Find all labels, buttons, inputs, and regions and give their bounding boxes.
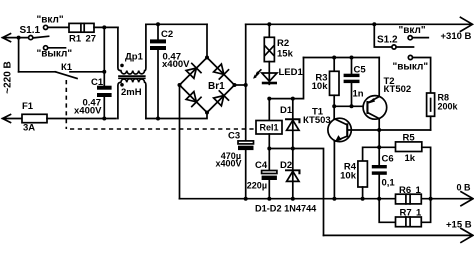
resistor R3 — [332, 56, 336, 60]
bridge corner dots — [205, 56, 209, 60]
svg-text:D1: D1 — [280, 105, 293, 116]
bridge minus lead down — [179, 85, 181, 199]
svg-text:0,1: 0,1 — [382, 178, 396, 189]
svg-text:S1.1: S1.1 — [20, 25, 41, 36]
zener D1 — [291, 97, 295, 101]
svg-text:10k: 10k — [312, 81, 329, 92]
svg-text:220µ: 220µ — [247, 181, 267, 191]
resistor R5 — [379, 146, 395, 148]
T2 emitter lead — [378, 58, 380, 97]
node A junction — [17, 36, 21, 40]
capacitor C4 — [268, 149, 270, 171]
capacitor C3 — [238, 141, 254, 144]
svg-text:+15 В: +15 В — [446, 220, 472, 231]
svg-text:КТ502: КТ502 — [384, 84, 412, 95]
S1.1 on terminal — [44, 25, 48, 29]
zener D2 — [292, 149, 294, 199]
switch S1.1 pole — [29, 36, 33, 40]
resistor R6 — [396, 194, 422, 204]
capacitor C1 — [97, 86, 112, 90]
choke Dr1 bottom winding — [118, 79, 146, 119]
LED1 — [268, 62, 270, 85]
svg-text:~220 В: ~220 В — [3, 61, 14, 94]
+310V rail — [246, 17, 473, 31]
T1 base wire / mid rail — [348, 129, 430, 131]
resistor R4 — [363, 147, 380, 161]
capacitor C6 — [372, 165, 387, 168]
fuse F1 — [22, 114, 47, 122]
bridge plus wire — [235, 84, 246, 86]
T2 collector lead — [378, 119, 380, 130]
transistor T1 — [328, 118, 351, 141]
junction C2 bottom — [156, 117, 160, 121]
svg-text:3A: 3A — [23, 123, 35, 134]
bridge diode bottom-left — [186, 92, 196, 102]
svg-text:F1: F1 — [22, 101, 34, 112]
contact K1 blade — [55, 72, 77, 79]
svg-text:x400V: x400V — [74, 106, 102, 117]
bridge diode top-left — [186, 68, 196, 78]
bridge Br1 diamond — [180, 58, 235, 113]
switch S1.1 blade — [33, 36, 49, 38]
resistor R1 — [69, 23, 94, 32]
svg-text:C1: C1 — [91, 77, 104, 88]
contact K1 right wire — [70, 71, 104, 73]
svg-text:R5: R5 — [403, 133, 416, 144]
svg-text:R2: R2 — [277, 38, 289, 49]
choke Dr1 top winding — [118, 24, 146, 74]
svg-text:R7: R7 — [400, 207, 412, 218]
wire C1 column — [103, 27, 105, 85]
svg-text:+310 В: +310 В — [441, 31, 472, 42]
K1 mechanical dashed link — [66, 80, 254, 129]
choke core — [119, 76, 145, 78]
T2 base wire — [334, 105, 367, 107]
svg-text:R6: R6 — [399, 185, 411, 196]
svg-text:0 В: 0 В — [457, 182, 472, 192]
svg-text:x400V: x400V — [162, 59, 190, 70]
svg-text:15k: 15k — [277, 48, 294, 59]
wire down from node A — [18, 38, 20, 72]
choke polarity dots — [120, 64, 124, 68]
svg-text:S1.2: S1.2 — [377, 35, 398, 46]
wire off-terminal stub — [48, 47, 66, 49]
svg-text:27: 27 — [86, 34, 97, 45]
node wire to riser — [269, 58, 303, 99]
wire F1 to choke bottom-left — [47, 118, 116, 120]
resistor R8 — [427, 93, 435, 116]
svg-text:R1: R1 — [69, 34, 82, 45]
resistor R2 — [268, 24, 270, 37]
switch S1.2 — [372, 22, 376, 26]
capacitor C3 lead — [245, 85, 247, 141]
wire on-terminal to R1 — [48, 26, 69, 28]
resistor R7 — [396, 217, 422, 227]
junction C1 bottom — [102, 117, 106, 121]
svg-text:C2: C2 — [161, 29, 173, 40]
transistor T2 — [363, 96, 387, 120]
capacitor C2 — [157, 24, 159, 39]
junction C2 top — [156, 22, 160, 26]
svg-text:200k: 200k — [438, 101, 459, 111]
relay Rel1 — [268, 99, 270, 121]
0V rail — [180, 192, 474, 206]
junction R2 top — [267, 22, 271, 26]
svg-text:"выкл": "выкл" — [37, 48, 73, 59]
input arrow ~220V bottom line — [3, 115, 23, 123]
junction LED cathode node — [267, 97, 271, 101]
svg-text:C5: C5 — [354, 65, 367, 76]
wire R1 to choke top — [94, 26, 118, 28]
svg-text:D2: D2 — [280, 160, 292, 171]
svg-text:"выкл": "выкл" — [393, 62, 429, 73]
svg-text:C6: C6 — [382, 154, 394, 165]
base supply rail — [304, 57, 380, 59]
svg-text:КТ503: КТ503 — [303, 115, 331, 126]
svg-text:C3: C3 — [228, 130, 240, 141]
bridge top lead — [206, 24, 208, 57]
+15V rail — [324, 228, 474, 242]
svg-text:1n: 1n — [353, 89, 364, 100]
svg-text:x400V: x400V — [215, 158, 241, 168]
svg-text:2mH: 2mH — [121, 87, 142, 98]
input arrow ~220V top line — [3, 34, 29, 42]
wire plus up to rail — [245, 24, 247, 85]
bridge diode top-right — [214, 64, 224, 74]
svg-text:1: 1 — [416, 185, 422, 196]
svg-text:10k: 10k — [340, 170, 357, 181]
svg-text:"вкл": "вкл" — [37, 14, 64, 25]
+15V tap wire — [269, 149, 323, 236]
svg-text:Rel1: Rel1 — [259, 123, 278, 133]
svg-text:1: 1 — [416, 207, 422, 218]
junction R1 wire / C1 — [102, 25, 106, 29]
svg-text:Br1: Br1 — [208, 81, 225, 92]
LED1 arrows — [255, 70, 261, 77]
svg-text:1k: 1k — [405, 153, 416, 164]
svg-text:LED1: LED1 — [279, 67, 304, 78]
svg-text:C4: C4 — [255, 160, 268, 171]
junction K1/C1 — [102, 70, 106, 74]
bridge diode bottom-right — [214, 96, 224, 106]
capacitor C5 — [350, 56, 354, 60]
svg-text:Др1: Др1 — [125, 52, 144, 63]
contact K1 left wire — [19, 71, 56, 73]
svg-text:D1-D2 1N4744: D1-D2 1N4744 — [255, 204, 317, 214]
AC bottom wire choke to bridge — [146, 113, 207, 119]
AC top wire choke to bridge — [146, 23, 207, 25]
S1.1 off terminal — [44, 46, 48, 50]
C6 column — [378, 130, 380, 165]
svg-text:"вкл": "вкл" — [399, 25, 426, 36]
R7 left feed — [379, 199, 395, 223]
svg-text:К1: К1 — [61, 62, 73, 73]
